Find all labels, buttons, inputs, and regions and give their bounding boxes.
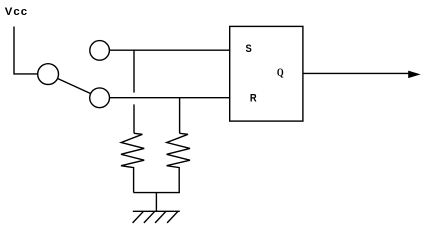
svg-text:S: S: [246, 44, 252, 56]
svg-text:R: R: [250, 93, 257, 105]
svg-text:Vcc: Vcc: [5, 6, 28, 18]
svg-text:Q: Q: [277, 67, 284, 79]
